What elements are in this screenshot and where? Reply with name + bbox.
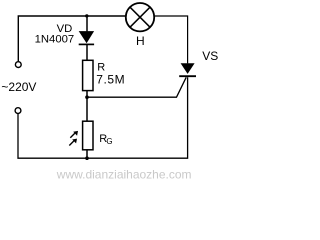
svg-text:www.dianziaihaozhe.com: www.dianziaihaozhe.com <box>56 167 192 181</box>
svg-text:~220V: ~220V <box>1 80 36 94</box>
svg-text:1N4007: 1N4007 <box>35 34 75 46</box>
svg-text:H: H <box>136 34 145 48</box>
svg-text:VS: VS <box>202 49 218 63</box>
svg-text:7.5M: 7.5M <box>96 72 125 86</box>
svg-text:G: G <box>106 137 112 146</box>
